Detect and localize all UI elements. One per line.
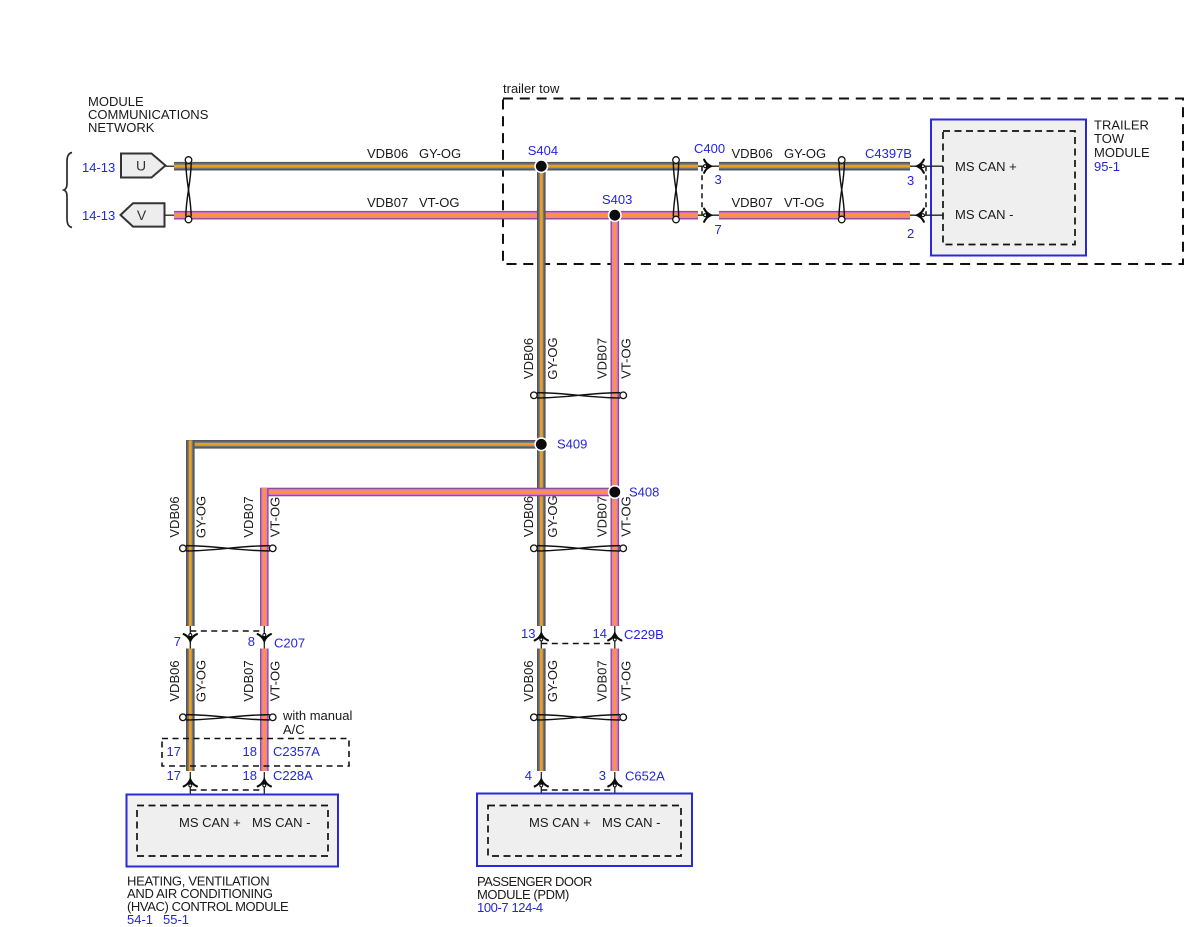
svg-text:17: 17 [167,744,181,759]
svg-text:7: 7 [715,222,722,237]
svg-text:VDB06: VDB06 [167,660,182,701]
svg-text:MS CAN +: MS CAN + [955,159,1017,174]
svg-text:18: 18 [243,744,257,759]
svg-text:3: 3 [599,768,606,783]
svg-text:S404: S404 [528,143,558,158]
svg-text:GY-OG: GY-OG [545,495,560,537]
svg-text:VDB07: VDB07 [594,660,609,701]
svg-text:VT-OG: VT-OG [267,661,282,701]
svg-text:S409: S409 [557,437,587,452]
svg-text:2: 2 [907,226,914,241]
svg-text:MS CAN -: MS CAN - [955,207,1014,222]
svg-text:GY-OG: GY-OG [784,146,826,161]
svg-text:A/C: A/C [283,722,305,737]
svg-text:with manual: with manual [282,708,352,723]
svg-text:trailer tow: trailer tow [503,81,560,96]
svg-text:VDB07: VDB07 [367,195,408,210]
svg-text:VDB06: VDB06 [521,660,536,701]
svg-text:13: 13 [521,626,535,641]
svg-text:VT-OG: VT-OG [619,338,634,378]
svg-text:VDB06: VDB06 [521,338,536,379]
svg-text:C652A: C652A [625,769,665,784]
svg-text:MS CAN -: MS CAN - [602,815,661,830]
svg-text:GY-OG: GY-OG [545,337,560,379]
svg-text:MS CAN +: MS CAN + [529,815,591,830]
svg-text:VDB07: VDB07 [594,496,609,537]
svg-text:V: V [137,207,147,223]
svg-text:54-1: 54-1 [127,912,153,927]
svg-text:8: 8 [248,634,255,649]
svg-text:95-1: 95-1 [1094,159,1120,174]
svg-text:NETWORK: NETWORK [88,120,155,135]
svg-text:VT-OG: VT-OG [619,661,634,701]
svg-text:VT-OG: VT-OG [619,496,634,536]
svg-text:100-7 124-4: 100-7 124-4 [477,900,543,915]
svg-text:GY-OG: GY-OG [193,496,208,538]
svg-text:S403: S403 [602,192,632,207]
svg-text:C2357A: C2357A [273,744,320,759]
svg-text:VDB06: VDB06 [367,146,408,161]
svg-text:55-1: 55-1 [163,912,189,927]
svg-text:VDB06: VDB06 [167,496,182,537]
svg-text:7: 7 [174,634,181,649]
svg-text:VDB06: VDB06 [521,496,536,537]
svg-text:18: 18 [243,768,257,783]
svg-text:MODULE: MODULE [1094,145,1150,160]
svg-text:C400: C400 [694,141,725,156]
svg-text:C229B: C229B [624,627,664,642]
svg-text:17: 17 [167,768,181,783]
svg-text:VDB07: VDB07 [241,660,256,701]
svg-text:VDB06: VDB06 [732,146,773,161]
svg-text:14-13: 14-13 [82,208,115,223]
svg-text:C207: C207 [274,636,305,651]
svg-text:VT-OG: VT-OG [419,195,459,210]
svg-text:GY-OG: GY-OG [419,146,461,161]
svg-text:3: 3 [715,172,722,187]
svg-text:C4397B: C4397B [865,146,912,161]
svg-text:MS CAN +: MS CAN + [179,815,241,830]
svg-text:14-13: 14-13 [82,160,115,175]
svg-text:3: 3 [907,173,914,188]
svg-text:GY-OG: GY-OG [545,660,560,702]
svg-text:14: 14 [593,626,607,641]
svg-text:GY-OG: GY-OG [193,660,208,702]
svg-text:VT-OG: VT-OG [784,195,824,210]
svg-text:U: U [136,158,146,174]
svg-text:VDB07: VDB07 [732,195,773,210]
svg-text:MS CAN -: MS CAN - [252,815,311,830]
svg-text:4: 4 [525,768,532,783]
svg-text:VDB07: VDB07 [241,496,256,537]
svg-text:C228A: C228A [273,768,313,783]
svg-text:VDB07: VDB07 [594,338,609,379]
svg-text:VT-OG: VT-OG [267,497,282,537]
